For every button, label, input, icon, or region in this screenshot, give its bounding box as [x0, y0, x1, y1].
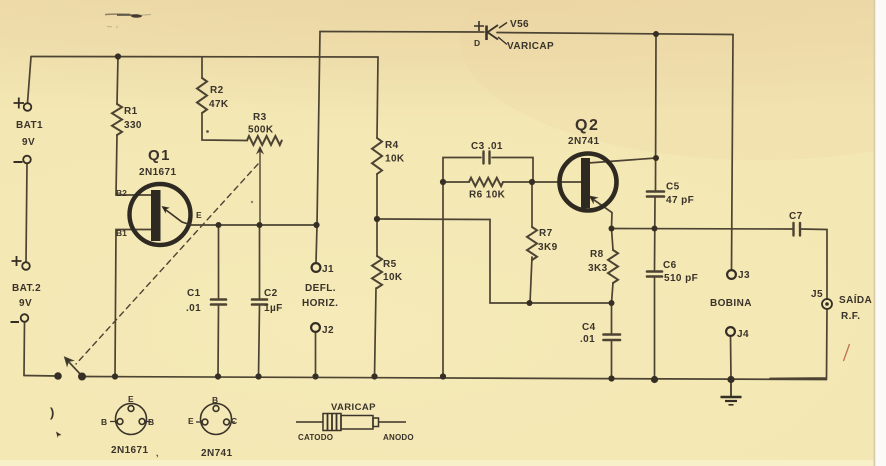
wire: R6 right lead	[503, 181, 532, 183]
resistor R7	[527, 227, 537, 260]
connector J5 output	[822, 299, 832, 309]
svg-text:J1: J1	[322, 264, 334, 275]
svg-text:Q1: Q1	[148, 147, 171, 164]
varicap V56 symbol	[474, 21, 507, 45]
wire: R4 bottom to node, down to R5	[376, 174, 378, 256]
plus mark	[474, 21, 484, 31]
wire: R1 top lead from rail	[117, 57, 118, 105]
R3 wiper arrow	[257, 147, 263, 153]
svg-text:47 pF: 47 pF	[666, 195, 694, 206]
svg-text:Q2: Q2	[575, 117, 599, 134]
junction: rail/B1	[112, 373, 118, 379]
wire: J4 to bottom rail	[730, 336, 733, 380]
speck below R3	[251, 201, 253, 203]
svg-text:C7: C7	[789, 211, 803, 222]
junction: R4/R5 node	[374, 216, 380, 222]
svg-text:C: C	[231, 416, 237, 426]
svg-text:ANODO: ANODO	[383, 433, 414, 442]
svg-text:C4: C4	[582, 322, 596, 333]
wire: C1 top lead	[218, 225, 220, 298]
junction: emitter/C2-wiper	[257, 222, 263, 228]
svg-text:): )	[50, 405, 54, 420]
wire: C6 bottom to rail	[654, 278, 656, 380]
svg-text:BAT1: BAT1	[16, 120, 43, 131]
svg-text:10K: 10K	[383, 272, 403, 283]
svg-text:R4: R4	[385, 140, 399, 151]
wire: Q2 collector	[588, 158, 656, 163]
svg-text:C1: C1	[187, 288, 201, 299]
wire: C5/C6 branch	[655, 34, 658, 190]
svg-text:1µF: 1µF	[264, 303, 283, 314]
resistor R3 500K pot body	[247, 136, 282, 145]
resistor R1	[112, 104, 122, 135]
speck near 47K	[206, 130, 209, 133]
svg-text:V56: V56	[510, 19, 529, 30]
svg-text:R7: R7	[539, 228, 553, 239]
battery terminal BAT2 minus	[21, 314, 29, 322]
wire: BAT1 minus to BAT2 plus	[26, 164, 27, 263]
svg-text:SAÍDA: SAÍDA	[839, 293, 872, 306]
wire: C2 top lead	[259, 225, 261, 298]
capacitor C2	[252, 300, 267, 305]
switch lever	[68, 361, 82, 376]
wire: R7 top lead	[531, 182, 533, 227]
battery terminal BAT1 plus	[24, 103, 32, 111]
resistor R2	[197, 78, 207, 113]
Q1 emitter lead with arrowhead	[164, 209, 191, 226]
wire: C3/R6 node down to bottom rail	[442, 182, 444, 377]
wire: C2 bottom lead	[259, 306, 260, 377]
wire: R5 bottom to bottom rail	[375, 288, 377, 377]
junction: C5/C6 emitter rail	[652, 226, 658, 232]
junction: rail/C1	[215, 373, 221, 379]
terminal J2	[311, 323, 320, 332]
junction: rail/R5	[371, 373, 377, 379]
smudge marks top	[105, 14, 151, 27]
wire: BAT2 minus down to rail corner	[23, 322, 26, 376]
junction: rail/J2	[312, 373, 318, 379]
resistor R4	[372, 138, 382, 174]
svg-text:BAT.2: BAT.2	[12, 283, 41, 294]
transistor Q2 body	[560, 154, 617, 211]
BAT1 minus sign	[14, 161, 23, 163]
wire: R2 top lead from rail	[201, 57, 203, 78]
junction: switch left contact	[54, 372, 62, 380]
svg-text:BOBINA: BOBINA	[710, 298, 752, 309]
svg-text:9V: 9V	[22, 137, 35, 148]
resistor R8	[608, 250, 618, 283]
junction: rail/C3 drop	[440, 373, 446, 379]
wire: R8 bottom lead	[612, 283, 614, 303]
svg-text:500K: 500K	[248, 125, 274, 136]
BAT2 plus sign	[12, 256, 22, 266]
wire: R8 top lead	[612, 229, 614, 251]
wire: BAT1 + up to top rail	[28, 57, 32, 103]
svg-text:2N741: 2N741	[201, 448, 233, 459]
capacitor C5	[647, 192, 664, 197]
svg-text:VARICAP: VARICAP	[331, 402, 376, 413]
junction: emitter/J1 line	[313, 222, 319, 228]
junction: Q2 emitter node	[609, 226, 615, 232]
svg-text:.01: .01	[186, 303, 201, 314]
svg-text:E: E	[188, 416, 194, 426]
svg-text:47K: 47K	[209, 99, 229, 110]
wire: top varicap line left of V56	[320, 31, 484, 34]
junction: rail/C4	[608, 375, 614, 381]
svg-text:C3 .01: C3 .01	[471, 141, 503, 152]
svg-text:R6 10K: R6 10K	[469, 190, 506, 201]
BAT2 minus sign	[11, 321, 20, 323]
resistor R5	[372, 256, 382, 288]
wire: bottom ground rail	[82, 377, 827, 380]
svg-text:510 pF: 510 pF	[664, 273, 698, 284]
svg-text:J5: J5	[811, 289, 823, 300]
wire: C3 right lead and riser	[492, 158, 533, 183]
junction: rail/R1	[115, 53, 121, 59]
junction: R8/C4 node	[609, 300, 615, 306]
wire: J5 down to rail	[770, 309, 827, 379]
wire: C1 bottom lead	[217, 306, 220, 377]
wire: J3 branch down from top line	[732, 35, 734, 271]
junction: R6/C3 left node	[440, 179, 446, 185]
leader to VARICAP label	[498, 37, 507, 45]
wire: R7 bottom lead	[530, 257, 532, 303]
svg-text:DEFL.: DEFL.	[305, 283, 336, 294]
wire: top varicap line right of V56	[497, 33, 733, 35]
svg-text:CATODO: CATODO	[298, 433, 333, 442]
svg-text:J2: J2	[322, 325, 334, 336]
wire: bottom rail left stub from BAT2	[24, 375, 58, 378]
leader to V56 label	[499, 23, 507, 29]
svg-text:R2: R2	[210, 85, 224, 96]
battery terminal BAT2 plus	[22, 262, 30, 270]
junction: emitter/C1	[216, 222, 222, 228]
wire: R3 wiper stem down to emitter node	[259, 150, 261, 225]
ground symbol	[721, 380, 742, 405]
svg-text:VARICAP: VARICAP	[507, 41, 554, 52]
wire: R4 branch from rail	[377, 57, 378, 138]
switch lever arrowhead	[65, 357, 74, 366]
capacitor C6	[647, 272, 662, 277]
wire: Q1 emitter rail	[191, 224, 316, 226]
svg-text:.01: .01	[580, 334, 595, 345]
wire: C4 top lead	[611, 303, 613, 333]
svg-text:3K3: 3K3	[588, 263, 608, 274]
wire: top supply rail	[31, 56, 378, 59]
wire: C5 bottom to emitter node	[654, 198, 657, 270]
varicap package drawing	[296, 414, 406, 431]
svg-text:B2: B2	[116, 188, 127, 198]
svg-text:R3: R3	[253, 112, 267, 123]
svg-text:2N741: 2N741	[568, 136, 600, 147]
svg-text:J3: J3	[738, 270, 750, 281]
svg-text:2N1671: 2N1671	[111, 445, 148, 456]
BAT1 plus sign	[14, 98, 25, 109]
wire: varicap net down to J1	[316, 32, 320, 264]
wire: Q1 B1 to bottom rail	[115, 230, 152, 377]
svg-text:B: B	[212, 395, 218, 405]
terminal J4	[726, 327, 735, 336]
stray speck	[56, 432, 62, 439]
svg-text:3K9: 3K9	[538, 242, 558, 253]
wire: Q2 emitter lead	[587, 195, 612, 228]
junction: switch right contact	[78, 373, 86, 381]
capacitor C3	[484, 152, 490, 164]
svg-text:2N1671: 2N1671	[139, 167, 176, 178]
svg-text:R8: R8	[590, 249, 604, 260]
pinout 2N1671	[110, 404, 151, 435]
transistor Q1 body	[130, 184, 192, 245]
svg-text:D: D	[474, 38, 480, 48]
wire: C3 left riser and lead	[443, 158, 481, 183]
terminal J1	[312, 263, 321, 272]
svg-text:9V: 9V	[19, 298, 32, 309]
junction: rail/ground	[727, 376, 734, 383]
junction: top line / C5 branch	[653, 31, 659, 37]
svg-text:,: ,	[156, 448, 158, 458]
red pen mark	[844, 344, 850, 361]
capacitor C7	[794, 223, 801, 236]
dashed mechanical link pot-switch	[76, 164, 258, 364]
resistor R6	[469, 178, 503, 186]
svg-text:B: B	[148, 417, 154, 427]
svg-text:J4: J4	[737, 329, 749, 340]
wire: C4 bottom lead	[611, 342, 613, 379]
wire: R2 bottom to R3 left	[202, 113, 247, 141]
svg-text:C6: C6	[663, 260, 677, 271]
right white scan edge	[875, 0, 886, 466]
terminal J3	[727, 270, 736, 279]
svg-text:R1: R1	[124, 106, 138, 117]
junction: R7 bottom	[527, 300, 533, 306]
svg-text:B1: B1	[116, 228, 127, 238]
junction: collector/C5	[653, 155, 659, 161]
svg-text:E: E	[128, 394, 134, 404]
wire: emitter output rail to C7	[612, 228, 793, 231]
wire: J2 to bottom rail	[315, 332, 317, 377]
wire: R1 bottom to Q1 B2	[116, 135, 152, 195]
svg-text:E: E	[196, 210, 202, 220]
junction: rail/C2	[255, 373, 261, 379]
svg-text:10K: 10K	[385, 154, 405, 165]
pinout 2N741	[196, 404, 235, 435]
wire: R6 left lead	[443, 181, 469, 183]
battery terminal BAT1 minus	[23, 156, 31, 164]
svg-text:HORIZ.: HORIZ.	[302, 298, 338, 309]
svg-text:R.F.: R.F.	[841, 311, 860, 322]
svg-text:B: B	[101, 417, 107, 427]
wire: C7 right to J5	[801, 229, 827, 299]
capacitor C1	[211, 300, 226, 305]
junction: rail/C6	[651, 376, 658, 383]
svg-text:C5: C5	[666, 182, 680, 193]
wire: node to Q2 bias network	[377, 219, 611, 303]
wire: Q2 base from R6 node	[532, 181, 581, 183]
svg-text:R5: R5	[383, 259, 397, 270]
junction: R6/C3 right node	[529, 179, 535, 185]
svg-text:330: 330	[124, 120, 142, 131]
svg-text:C2: C2	[264, 288, 278, 299]
capacitor C4	[604, 335, 621, 341]
Q2 emitter arrowhead	[590, 196, 598, 203]
